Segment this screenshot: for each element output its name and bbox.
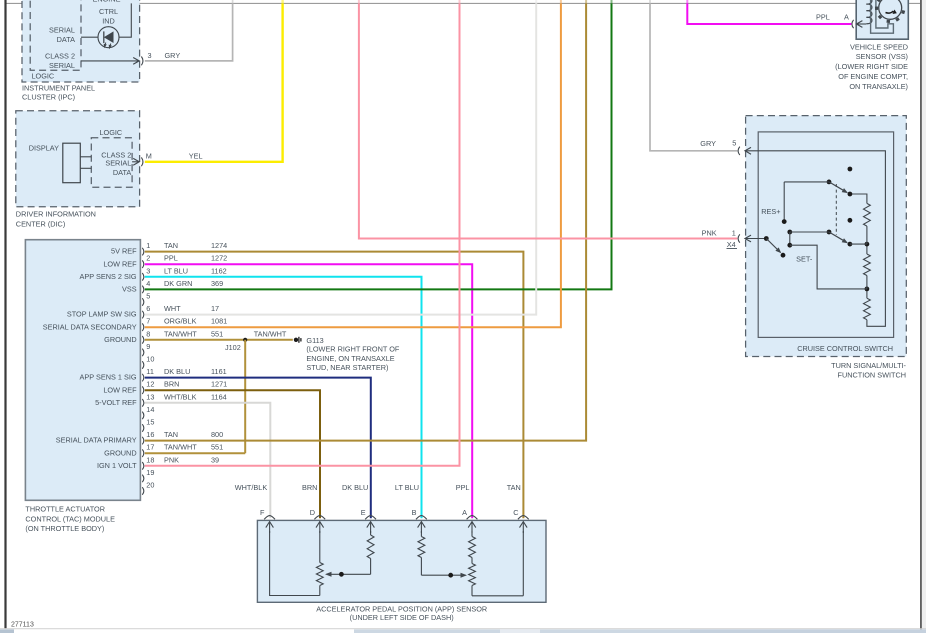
TAC module pin function labels <box>43 247 137 470</box>
svg-text:TAN/WHT: TAN/WHT <box>164 443 197 452</box>
svg-text:RES+: RES+ <box>761 207 780 216</box>
cruise node at SET contact <box>865 287 870 292</box>
svg-text:SERIAL: SERIAL <box>105 158 131 167</box>
svg-text:M: M <box>146 152 152 161</box>
svg-text:ENGINE, ON TRANSAXLE: ENGINE, ON TRANSAXLE <box>306 354 394 363</box>
svg-text:17: 17 <box>146 443 154 452</box>
page left border bar <box>4 0 6 628</box>
wire TAN/WHT 551 pin17 TAC to splice J102 <box>145 443 245 454</box>
svg-text:YEL: YEL <box>189 152 203 161</box>
cruise control switch inner box <box>758 132 893 353</box>
svg-text:GRY: GRY <box>165 51 181 60</box>
svg-text:THROTTLE ACTUATOR: THROTTLE ACTUATOR <box>25 505 105 514</box>
wire from IPC logic to LED and up <box>81 3 131 37</box>
svg-text:(ON THROTTLE BODY): (ON THROTTLE BODY) <box>25 524 104 533</box>
APP pin B internal resistor and wiper wire <box>418 531 467 578</box>
svg-text:APP SENS 2 SIG: APP SENS 2 SIG <box>80 272 137 281</box>
cruise resistor R1 upper <box>850 194 870 244</box>
page right border bar <box>920 0 922 633</box>
svg-text:ORG/BLK: ORG/BLK <box>164 317 197 326</box>
APP potentiometer 2 (pins A-C) with series resistor <box>469 531 524 596</box>
svg-text:SET-: SET- <box>796 254 813 263</box>
APP pin C internal wire <box>522 531 524 596</box>
svg-text:39: 39 <box>211 455 219 464</box>
svg-text:B: B <box>412 508 417 517</box>
wire DK GRN 369 pin4 TAC up to top <box>145 0 612 289</box>
svg-text:IGN 1 VOLT: IGN 1 VOLT <box>97 461 137 470</box>
svg-text:DRIVER INFORMATION: DRIVER INFORMATION <box>16 210 96 219</box>
DIC display box <box>63 143 92 183</box>
cruise link between arm pivots <box>787 232 792 248</box>
svg-text:369: 369 <box>211 279 223 288</box>
svg-text:ENGINE: ENGINE <box>93 0 121 4</box>
svg-text:CLASS 2: CLASS 2 <box>45 52 75 61</box>
IPC class 2 serial output wire with connector pin 3 <box>81 51 180 66</box>
svg-text:1271: 1271 <box>211 380 227 389</box>
svg-text:LT BLU: LT BLU <box>395 483 419 492</box>
svg-text:DK GRN: DK GRN <box>164 279 192 288</box>
svg-text:5-VOLT REF: 5-VOLT REF <box>95 398 137 407</box>
svg-text:16: 16 <box>146 430 154 439</box>
cruise upper switch arm RES+ <box>761 180 852 225</box>
svg-text:LOW REF: LOW REF <box>103 259 137 268</box>
svg-text:BRN: BRN <box>302 483 317 492</box>
svg-text:1081: 1081 <box>211 317 227 326</box>
svg-text:(LOWER RIGHT SIDE: (LOWER RIGHT SIDE <box>835 62 908 71</box>
svg-text:DATA: DATA <box>113 168 132 177</box>
VSS pickup coil <box>866 0 872 24</box>
svg-text:PPL: PPL <box>164 254 178 263</box>
svg-text:GROUND: GROUND <box>104 335 136 344</box>
svg-text:CTRL: CTRL <box>99 7 118 16</box>
svg-text:TAN/WHT: TAN/WHT <box>164 329 197 338</box>
svg-text:1164: 1164 <box>211 392 227 401</box>
instrument panel cluster (IPC) block <box>22 0 140 102</box>
svg-text:800: 800 <box>211 430 223 439</box>
wire PPL 1272 pin2 TAC to APP pin A <box>145 254 472 519</box>
VSS pin A connector <box>816 12 866 28</box>
svg-text:1274: 1274 <box>211 241 227 250</box>
cruise open contact dot upper <box>848 167 853 172</box>
svg-text:WHT/BLK: WHT/BLK <box>164 392 197 401</box>
svg-text:18: 18 <box>146 455 154 464</box>
svg-text:DK BLU: DK BLU <box>164 367 190 376</box>
page top border line <box>6 2 920 4</box>
svg-text:J102: J102 <box>225 343 241 352</box>
cruise switch pin 1 connector X4 <box>702 228 767 249</box>
svg-text:TURN SIGNAL/MULTI-: TURN SIGNAL/MULTI- <box>831 361 906 370</box>
svg-text:D: D <box>310 508 315 517</box>
svg-text:12: 12 <box>146 380 154 389</box>
APP sensor connector arcs and pin letters F D E B A C <box>260 508 529 519</box>
svg-text:CLUSTER (IPC): CLUSTER (IPC) <box>22 93 75 102</box>
svg-text:1: 1 <box>146 241 150 250</box>
svg-text:SERIAL: SERIAL <box>49 61 75 70</box>
cruise resistor R3 lower <box>864 289 871 320</box>
LED indicator lamp inside IPC <box>98 27 119 50</box>
svg-text:VSS: VSS <box>122 285 137 294</box>
svg-text:DK BLU: DK BLU <box>342 483 368 492</box>
wire TAN/WHT 551 pin8 TAC to ground G113 <box>145 329 293 340</box>
svg-text:11: 11 <box>146 367 154 376</box>
wire TAN 1274 pin1 TAC to APP pin C <box>145 241 524 518</box>
driver information center (DIC) block <box>16 111 140 229</box>
wire YEL from DIC pin M up to top <box>145 0 283 162</box>
svg-text:5: 5 <box>732 139 736 148</box>
svg-text:SERIAL DATA PRIMARY: SERIAL DATA PRIMARY <box>56 436 137 445</box>
svg-text:A: A <box>844 12 849 21</box>
svg-text:WHT: WHT <box>164 304 181 313</box>
cruise SET- branch wire <box>790 245 867 289</box>
svg-text:SERIAL: SERIAL <box>49 26 75 35</box>
svg-text:TAN/WHT: TAN/WHT <box>254 329 287 338</box>
wire GRY from IPC pin 3 up to top <box>145 0 233 61</box>
svg-text:5: 5 <box>146 292 150 301</box>
svg-text:1: 1 <box>732 228 736 237</box>
svg-text:IND: IND <box>102 17 115 26</box>
wire DK BLU 1161 pin11 TAC to APP pin E <box>145 367 371 518</box>
cruise lower switch arm <box>787 230 867 247</box>
svg-text:LOGIC: LOGIC <box>32 71 55 80</box>
svg-text:PNK: PNK <box>164 455 179 464</box>
TAC module 20-pin connector arcs and pin numbers <box>142 241 154 495</box>
APP pin F internal wire to potentiometer low side <box>270 531 320 596</box>
svg-text:3: 3 <box>148 51 152 60</box>
DIC class 2 serial output wire with connector pin M <box>132 152 202 167</box>
svg-text:BRN: BRN <box>164 380 179 389</box>
svg-text:GROUND: GROUND <box>104 448 136 457</box>
VSS toothed rotor wheel <box>875 0 905 23</box>
svg-text:2: 2 <box>146 254 150 263</box>
svg-text:PPL: PPL <box>816 12 830 21</box>
svg-text:INSTRUMENT PANEL: INSTRUMENT PANEL <box>22 83 95 92</box>
svg-text:14: 14 <box>146 405 154 414</box>
ground G113 <box>294 336 400 372</box>
svg-text:C: C <box>513 508 518 517</box>
svg-text:VEHICLE SPEED: VEHICLE SPEED <box>850 42 908 51</box>
svg-text:20: 20 <box>146 481 154 490</box>
cruise node lower arm contact <box>865 242 870 247</box>
svg-text:X4: X4 <box>727 240 736 249</box>
APP sensor wire color labels row <box>235 483 521 492</box>
APP pin E internal resistor and wiper wire <box>325 531 374 577</box>
wire WHT 17 pin6 TAC up to top <box>145 0 536 315</box>
svg-text:1161: 1161 <box>211 367 227 376</box>
svg-text:FUNCTION SWITCH: FUNCTION SWITCH <box>837 370 906 379</box>
wire PNK from top to cruise control switch pin 1 <box>359 0 737 239</box>
wire WHT/BLK 1164 pin13 TAC to APP pin F <box>145 392 270 518</box>
svg-text:CONTROL (TAC) MODULE: CONTROL (TAC) MODULE <box>25 514 115 523</box>
wire GRY from top to cruise control switch pin 5 <box>650 0 737 151</box>
svg-text:OF ENGINE COMPT,: OF ENGINE COMPT, <box>838 72 908 81</box>
splice junction J102 <box>225 338 247 352</box>
svg-text:1162: 1162 <box>211 266 227 275</box>
wire TAN/WHT splice J102 down to pin17 <box>244 340 246 453</box>
bottom scrollbar strip <box>0 629 926 633</box>
svg-text:3: 3 <box>146 266 150 275</box>
accelerator pedal position (APP) sensor block <box>257 520 546 621</box>
wire LT BLU 1162 pin3 TAC to APP pin B <box>145 266 422 518</box>
svg-text:9: 9 <box>146 342 150 351</box>
throttle actuator control (TAC) module block <box>25 240 140 533</box>
svg-text:CRUISE CONTROL SWITCH: CRUISE CONTROL SWITCH <box>797 344 893 353</box>
svg-text:TAN: TAN <box>164 430 178 439</box>
svg-text:277113: 277113 <box>11 621 34 628</box>
svg-text:TAN: TAN <box>164 241 178 250</box>
svg-text:STUD, NEAR STARTER): STUD, NEAR STARTER) <box>306 363 388 372</box>
svg-text:(UNDER LEFT SIDE OF DASH): (UNDER LEFT SIDE OF DASH) <box>350 613 454 622</box>
svg-text:TAN: TAN <box>507 483 521 492</box>
svg-text:7: 7 <box>146 317 150 326</box>
svg-text:CENTER (DIC): CENTER (DIC) <box>16 219 65 228</box>
cruise switch pin 5 connector <box>700 139 751 155</box>
svg-text:A: A <box>462 508 467 517</box>
svg-text:17: 17 <box>211 304 219 313</box>
svg-text:LT BLU: LT BLU <box>164 266 188 275</box>
svg-text:GRY: GRY <box>700 139 716 148</box>
cruise open contact dot lower <box>848 218 853 223</box>
cruise SET- switch arm from pin 1 <box>764 236 786 258</box>
svg-text:PPL: PPL <box>456 483 470 492</box>
svg-text:F: F <box>260 508 265 517</box>
svg-text:G113: G113 <box>306 336 323 345</box>
svg-text:LOW REF: LOW REF <box>103 385 137 394</box>
cruise gang link dashed <box>835 184 837 235</box>
svg-text:19: 19 <box>146 468 154 477</box>
wire PNK 39 pin18 TAC up to top <box>145 0 460 466</box>
turn signal/multi-function switch block <box>746 116 907 380</box>
cruise switch resistor network wire from pin5 <box>745 151 885 326</box>
svg-text:SENSOR (VSS): SENSOR (VSS) <box>856 52 908 61</box>
APP internal pin arrows <box>266 522 527 533</box>
svg-text:5V REF: 5V REF <box>111 247 137 256</box>
vehicle speed sensor (VSS) block <box>835 0 908 91</box>
wire PPL from top to VSS pin A <box>687 0 851 24</box>
svg-text:DISPLAY: DISPLAY <box>29 144 59 153</box>
svg-text:E: E <box>361 508 366 517</box>
svg-text:DATA: DATA <box>57 35 76 44</box>
wire ORG/BLK 1081 pin7 TAC up to top <box>145 0 561 327</box>
svg-text:SERIAL DATA SECONDARY: SERIAL DATA SECONDARY <box>43 322 137 331</box>
svg-text:8: 8 <box>146 329 150 338</box>
cruise resistor R2 middle <box>864 244 871 289</box>
svg-text:ON TRANSAXLE): ON TRANSAXLE) <box>849 82 908 91</box>
svg-text:LOGIC: LOGIC <box>100 128 123 137</box>
VSS reluctor L-shaped core <box>871 0 894 33</box>
svg-text:15: 15 <box>146 418 154 427</box>
svg-text:APP SENS 1 SIG: APP SENS 1 SIG <box>80 373 137 382</box>
APP potentiometer 1 (pins D-F) with wiper <box>316 531 323 596</box>
svg-text:1272: 1272 <box>211 254 227 263</box>
svg-text:4: 4 <box>146 279 150 288</box>
svg-text:PNK: PNK <box>702 228 717 237</box>
svg-text:(LOWER RIGHT FRONT OF: (LOWER RIGHT FRONT OF <box>306 345 400 354</box>
svg-text:551: 551 <box>211 443 223 452</box>
wire BRN 1271 pin12 TAC to APP pin D <box>145 380 320 519</box>
svg-text:6: 6 <box>146 304 150 313</box>
svg-text:13: 13 <box>146 392 154 401</box>
svg-text:STOP LAMP SW SIG: STOP LAMP SW SIG <box>67 310 137 319</box>
wire TAN 800 pin16 TAC up to top <box>145 0 586 441</box>
svg-text:WHT/BLK: WHT/BLK <box>235 483 268 492</box>
svg-text:551: 551 <box>211 329 223 338</box>
svg-text:10: 10 <box>146 355 154 364</box>
